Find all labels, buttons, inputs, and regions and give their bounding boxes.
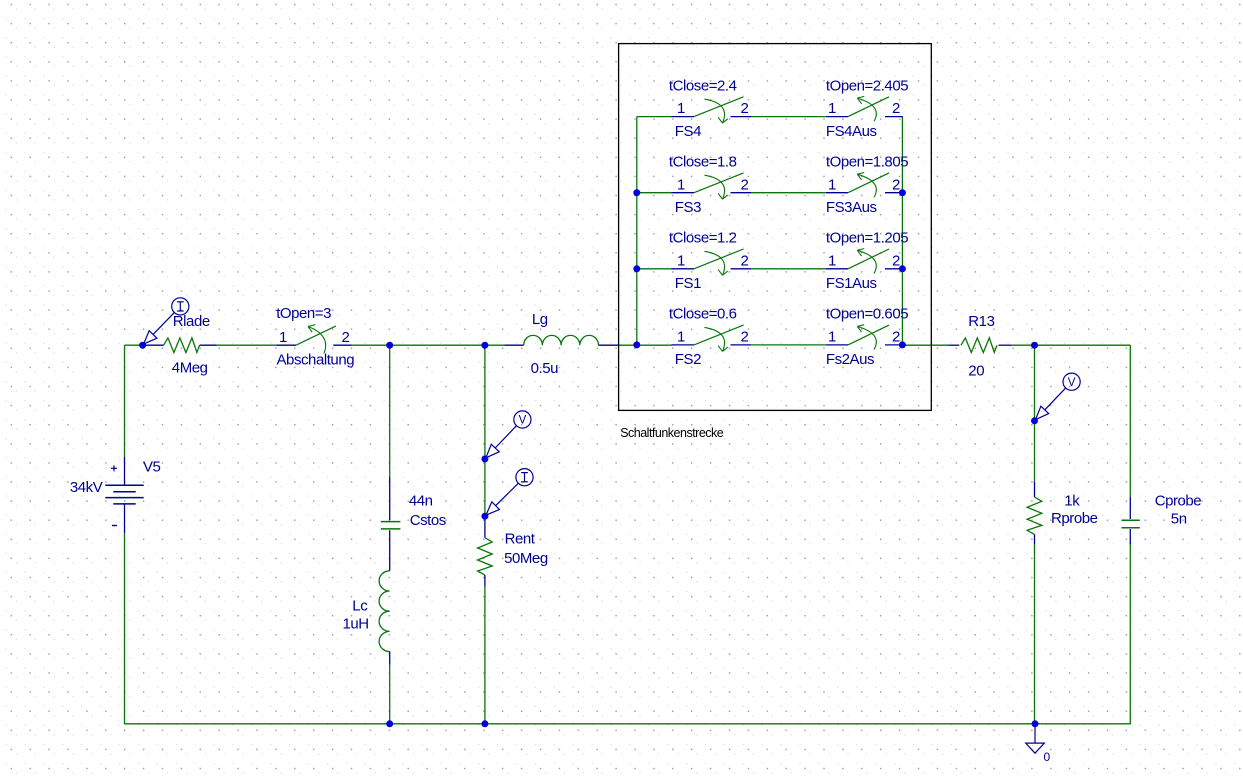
svg-text:20: 20 <box>968 363 984 380</box>
switch FS1 (Sw_tClose) <box>672 268 695 270</box>
wire FS1 row middle <box>751 268 826 270</box>
svg-text:1: 1 <box>828 252 836 269</box>
svg-text:50Meg: 50Meg <box>504 550 548 567</box>
junction node J1 <box>139 342 146 349</box>
svg-text:tOpen=0.605: tOpen=0.605 <box>826 306 908 323</box>
svg-text:2: 2 <box>892 176 900 193</box>
svg-text:2: 2 <box>741 176 749 193</box>
switch FS2 (Sw_tClose) <box>672 344 695 346</box>
junction node J13 <box>481 513 488 520</box>
wire Fs2Aus pin2 to R13 <box>902 344 948 346</box>
svg-text:tOpen=1.205: tOpen=1.205 <box>826 230 908 247</box>
wire Rlade to Abschaltung <box>217 344 277 346</box>
wire left vertical (V5 branch bottom) <box>124 533 126 724</box>
junction node J3 <box>481 342 488 349</box>
voltage source V5 battery symbol <box>124 457 126 485</box>
svg-text:0.5u: 0.5u <box>531 360 559 377</box>
wire Rprobe branch top <box>1034 345 1036 421</box>
svg-text:V: V <box>1068 377 1076 389</box>
wire bottom bus <box>125 723 1131 725</box>
resistor Rprobe <box>1034 481 1036 497</box>
wire FS4 row middle <box>751 116 826 118</box>
V5 plus sign <box>111 467 117 469</box>
wire main bus left segment <box>125 344 143 346</box>
wire R13 to node <box>1012 344 1035 346</box>
ground 0 <box>1034 724 1036 743</box>
wire Rent branch vertical top <box>484 345 486 459</box>
svg-text:tOpen=2.405: tOpen=2.405 <box>826 77 908 94</box>
resistor Rent <box>484 516 486 538</box>
wire FS1 row left <box>637 268 672 270</box>
junction node J15 <box>481 720 488 727</box>
wire left vertical (V5 branch top) <box>124 345 126 457</box>
svg-text:2: 2 <box>741 329 749 346</box>
wire FS box right vertical <box>901 117 903 345</box>
switch FS3Aus (Sw_tOpen) <box>826 192 848 194</box>
svg-text:FS3: FS3 <box>675 199 701 216</box>
wire between probe taps <box>484 459 486 516</box>
svg-text:FS4: FS4 <box>675 123 701 140</box>
switch Fs2Aus (Sw_tOpen) <box>826 344 848 346</box>
junction node J16 <box>1032 720 1039 727</box>
svg-text:1: 1 <box>677 252 685 269</box>
junction node J9 <box>899 265 906 272</box>
svg-text:FS2: FS2 <box>675 351 701 368</box>
junction node J4 <box>1031 342 1038 349</box>
current probe IPROBE2 <box>516 469 533 486</box>
svg-text:1uH: 1uH <box>343 615 369 632</box>
wire Cstos-Lc branch bottom <box>389 665 391 724</box>
wire Cprobe vertical bottom <box>1129 545 1131 725</box>
inductor Lc <box>389 568 391 571</box>
junction node J14 <box>386 720 393 727</box>
junction node J6 <box>633 265 640 272</box>
svg-text:1: 1 <box>677 100 685 117</box>
wire Rprobe bottom <box>1034 545 1036 724</box>
svg-text:tClose=2.4: tClose=2.4 <box>669 77 737 94</box>
svg-text:2: 2 <box>741 100 749 117</box>
svg-text:1: 1 <box>828 329 836 346</box>
svg-text:2: 2 <box>892 100 900 117</box>
wire Abschaltung to node <box>352 344 390 346</box>
svg-text:1: 1 <box>677 329 685 346</box>
junction node J10 <box>899 341 906 348</box>
block Schaltfunkenstrecke border <box>619 44 932 411</box>
svg-text:Lc: Lc <box>352 597 368 614</box>
wire node to Lg <box>485 344 505 346</box>
svg-text:44n: 44n <box>409 493 433 510</box>
wire Cprobe vertical top <box>1129 345 1131 497</box>
svg-text:1: 1 <box>828 176 836 193</box>
svg-text:FS3Aus: FS3Aus <box>826 199 877 216</box>
svg-text:Cstos: Cstos <box>410 512 446 529</box>
wire Rent bottom <box>484 587 486 724</box>
svg-text:2: 2 <box>342 329 350 346</box>
svg-text:Rlade: Rlade <box>173 313 210 330</box>
svg-text:FS4Aus: FS4Aus <box>826 123 877 140</box>
svg-text:Rent: Rent <box>505 531 536 548</box>
wire FS3 row middle <box>751 192 826 194</box>
wire Cstos branch vertical top <box>389 345 391 477</box>
V5 minus sign <box>112 525 117 527</box>
svg-text:V: V <box>519 415 527 427</box>
switch U_Abschaltung (Sw_tOpen) <box>277 344 296 346</box>
svg-text:Rprobe: Rprobe <box>1051 510 1098 527</box>
svg-text:tOpen=1.805: tOpen=1.805 <box>826 153 908 170</box>
voltage probe VPROBE1 <box>514 411 531 428</box>
svg-text:4Meg: 4Meg <box>172 360 208 377</box>
svg-text:tClose=1.8: tClose=1.8 <box>669 153 737 170</box>
wire node to node <box>390 344 485 346</box>
wire FS4 row left <box>637 116 672 118</box>
svg-text:tClose=0.6: tClose=0.6 <box>669 306 737 323</box>
svg-text:tClose=1.2: tClose=1.2 <box>669 230 737 247</box>
resistor R13 <box>949 344 960 346</box>
junction node J5 <box>633 189 640 196</box>
svg-text:1: 1 <box>828 100 836 117</box>
switch FS1Aus (Sw_tOpen) <box>826 268 848 270</box>
svg-text:V5: V5 <box>143 459 161 476</box>
wire node to Cprobe branch corner <box>1035 344 1131 346</box>
svg-text:2: 2 <box>892 252 900 269</box>
wire Lg to FS2 pin 1 <box>619 344 672 346</box>
wire node to Rprobe <box>1034 421 1036 482</box>
switch FS3 (Sw_tClose) <box>672 192 695 194</box>
svg-text:Abschaltung: Abschaltung <box>277 352 355 369</box>
svg-text:5n: 5n <box>1171 511 1187 528</box>
capacitor Cprobe <box>1129 497 1131 519</box>
junction node J11 <box>1031 417 1038 424</box>
svg-text:FS1Aus: FS1Aus <box>826 275 877 292</box>
svg-text:Fs2Aus: Fs2Aus <box>826 351 874 368</box>
current probe IPROBE1 <box>172 298 189 315</box>
junction node J7 <box>633 341 640 348</box>
svg-text:2: 2 <box>892 329 900 346</box>
voltage probe VPROBE2 <box>1063 373 1080 390</box>
wire FS box left vertical <box>636 117 638 345</box>
inductor Lg <box>505 344 524 346</box>
resistor Rlade <box>143 344 164 346</box>
svg-text:Lg: Lg <box>532 311 548 328</box>
svg-text:Schaltfunkenstrecke: Schaltfunkenstrecke <box>620 426 724 440</box>
svg-text:R13: R13 <box>968 313 994 330</box>
switch FS4Aus (Sw_tOpen) <box>826 116 848 118</box>
svg-text:34kV: 34kV <box>70 479 103 496</box>
svg-text:1k: 1k <box>1064 493 1080 510</box>
svg-text:2: 2 <box>741 252 749 269</box>
junction node J8 <box>899 189 906 196</box>
svg-text:tOpen=3: tOpen=3 <box>276 305 331 322</box>
wire FS3 row left <box>637 192 672 194</box>
svg-text:0: 0 <box>1044 750 1051 764</box>
svg-text:FS1: FS1 <box>675 275 701 292</box>
switch FS4 (Sw_tClose) <box>672 116 695 118</box>
junction node J12 <box>481 455 488 462</box>
capacitor Cstos <box>389 477 391 520</box>
svg-text:Cprobe: Cprobe <box>1155 493 1202 510</box>
svg-text:1: 1 <box>279 329 287 346</box>
junction node J2 <box>386 342 393 349</box>
wire FS2 pin2 to Fs2Aus pin1 <box>751 344 826 346</box>
svg-text:1: 1 <box>677 176 685 193</box>
